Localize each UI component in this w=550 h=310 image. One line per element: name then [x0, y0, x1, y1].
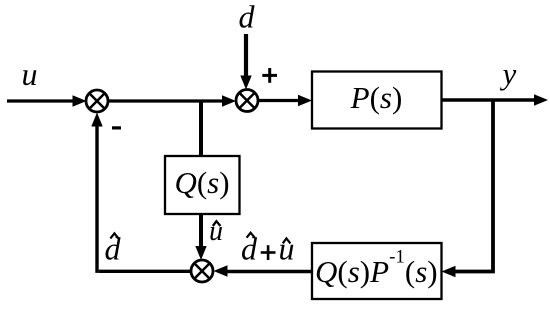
svg-text:d: d	[241, 231, 258, 267]
svg-text:y: y	[500, 56, 517, 91]
svg-text:u: u	[22, 56, 38, 92]
svg-text:Q(s): Q(s)	[174, 165, 229, 200]
svg-text:u: u	[279, 231, 295, 267]
svg-text:d: d	[239, 0, 256, 35]
svg-text:P(s): P(s)	[350, 80, 403, 115]
